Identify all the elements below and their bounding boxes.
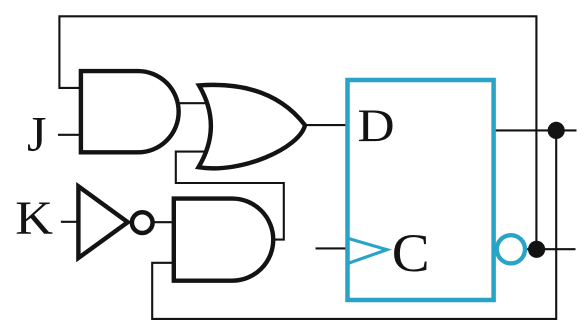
svg-text:C: C [392, 223, 430, 282]
svg-text:D: D [358, 99, 395, 151]
inverter NOT gate G3 triangle [78, 186, 127, 258]
svg-text:K: K [15, 191, 53, 245]
wire K input [61, 221, 80, 223]
flip-flop Q-bar output bubble [497, 235, 525, 263]
wire C clock input stub [316, 247, 347, 249]
wire inverter bubble to AND G4 upper input [153, 221, 177, 223]
D flip-flop U1 box [348, 80, 494, 300]
wire AND G4 output route to OR G2 lower input [176, 152, 284, 240]
wire Q feedback from Q node down and around to AND G4 lower input [152, 130, 556, 319]
wire top feedback from Q-bar node down-left-over to AND G1 upper input [59, 16, 536, 249]
node dot on Q-bar output line [528, 241, 545, 258]
inverter output bubble [132, 212, 153, 233]
wire OR G2 output to D input of flip-flop [303, 124, 346, 126]
wire AND G1 output to OR G2 upper input [175, 102, 210, 104]
wire Q output [495, 129, 577, 131]
wire J input [58, 134, 84, 136]
wire Q-bar output [527, 248, 576, 250]
svg-text:J: J [27, 106, 46, 162]
node dot on Q output line [548, 122, 565, 139]
AND gate G4 (inputs K-bar and Q) [174, 199, 273, 281]
AND gate G1 (inputs J and Q-bar) [81, 71, 179, 152]
OR gate G2 [199, 85, 306, 169]
clock edge triangle on flip-flop [348, 238, 387, 263]
